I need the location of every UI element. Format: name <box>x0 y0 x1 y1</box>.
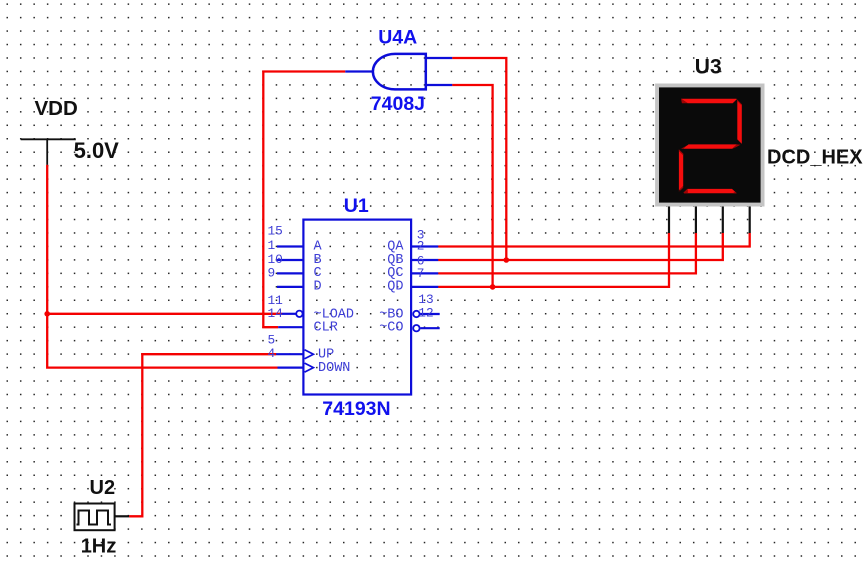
svg-text:DCD_HEX: DCD_HEX <box>767 146 863 168</box>
node junction QD <box>490 284 496 290</box>
node junction QB <box>504 257 510 263</box>
pin QD stub <box>411 286 438 288</box>
pin input1 <box>426 57 452 59</box>
power VDD symbol <box>21 139 76 165</box>
pin ~CO stub <box>413 325 419 331</box>
svg-text:CLR: CLR <box>314 321 338 336</box>
display pin 2 <box>695 207 697 234</box>
svg-text:U4A: U4A <box>378 26 417 48</box>
pin C stub <box>277 272 303 274</box>
svg-text:14: 14 <box>268 306 284 321</box>
clock source U2 <box>75 504 130 531</box>
pin QC stub <box>411 272 438 274</box>
wire QA to display pin4 <box>438 233 750 247</box>
display pin 1 <box>668 207 670 234</box>
svg-text:9: 9 <box>268 266 276 281</box>
wire AND input2 to QD <box>452 85 492 287</box>
pin CLR stub <box>278 326 303 328</box>
AND gate U4A <box>345 54 452 90</box>
pin ~LOAD stub <box>282 313 296 315</box>
svg-text:1: 1 <box>268 238 276 253</box>
segment E <box>679 150 683 191</box>
svg-text:D: D <box>314 280 322 295</box>
wire AND input1 to QB <box>452 58 506 260</box>
pin output <box>345 70 373 72</box>
svg-text:QD: QD <box>387 280 403 295</box>
pin QB stub <box>411 259 438 261</box>
segment A <box>681 99 737 104</box>
svg-text:12: 12 <box>418 306 433 321</box>
svg-text:VDD: VDD <box>35 97 78 120</box>
wire QB to display pin3 <box>438 233 723 260</box>
segment D <box>683 189 737 193</box>
svg-text:7408J: 7408J <box>371 93 425 115</box>
svg-text:U2: U2 <box>90 477 116 499</box>
segment B <box>737 99 742 144</box>
segment G <box>683 144 737 148</box>
wire VDD vertical <box>47 165 277 368</box>
svg-text:7: 7 <box>417 266 425 281</box>
wire QD to display pin1 <box>438 233 669 287</box>
svg-text:5.0V: 5.0V <box>74 138 120 163</box>
display pin 4 <box>749 207 751 234</box>
svg-text:~CO: ~CO <box>379 321 403 336</box>
pin D stub <box>277 286 303 288</box>
wire AND output to CLR <box>263 72 345 328</box>
svg-text:DOWN: DOWN <box>318 361 350 376</box>
display U3 DCD_HEX <box>655 84 764 234</box>
pin A stub <box>277 245 303 247</box>
svg-text:74193N: 74193N <box>322 398 390 420</box>
svg-text:15: 15 <box>268 224 283 239</box>
svg-text:4: 4 <box>268 346 276 361</box>
wire U2 to UP <box>129 354 276 516</box>
pin ~BO stub <box>413 311 419 317</box>
svg-text:1Hz: 1Hz <box>81 535 117 557</box>
chip U1 74193N <box>276 220 440 395</box>
wire QC to display pin2 <box>438 233 696 273</box>
pin QA stub <box>411 245 438 247</box>
pin input2 <box>426 84 452 86</box>
node junction VDD <box>44 311 50 317</box>
wire VDD to ~LOAD <box>47 313 281 315</box>
svg-text:U3: U3 <box>695 55 722 78</box>
pin B stub <box>277 259 303 261</box>
display pin 3 <box>722 207 724 234</box>
svg-text:2: 2 <box>417 239 425 254</box>
svg-text:U1: U1 <box>344 195 369 217</box>
pin UP stub <box>276 353 303 355</box>
pin DOWN stub <box>278 367 304 369</box>
